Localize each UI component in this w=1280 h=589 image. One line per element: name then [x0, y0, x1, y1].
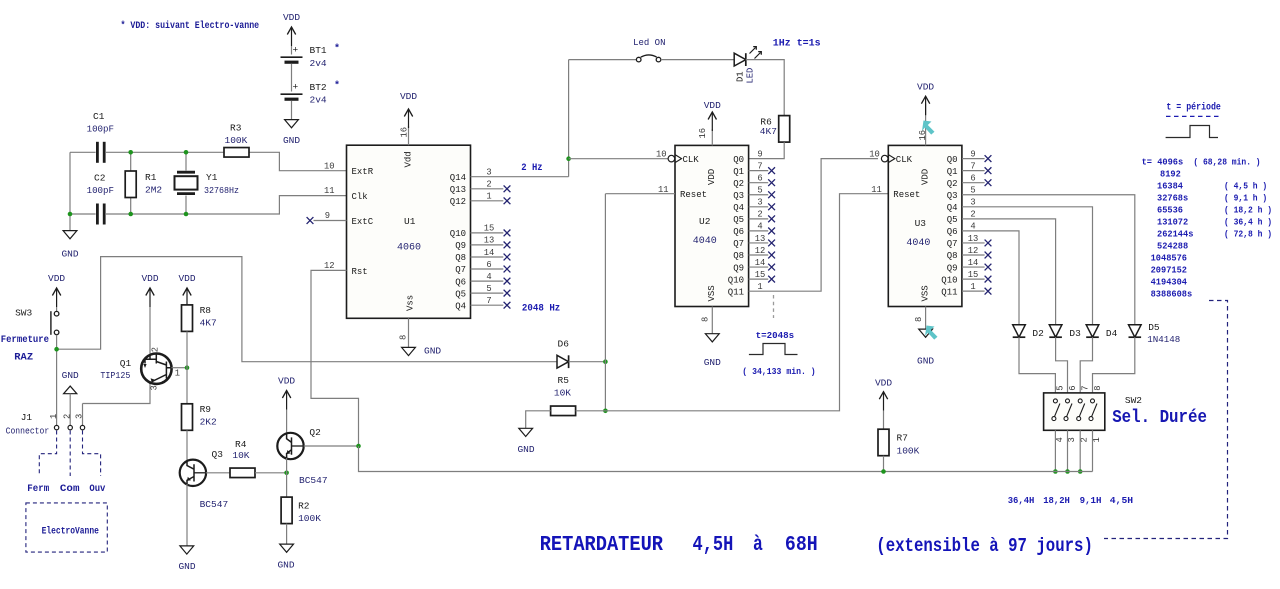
- svg-text:( 72,8 h ): ( 72,8 h ): [1224, 228, 1272, 239]
- svg-text:13: 13: [755, 234, 766, 244]
- svg-text:2: 2: [486, 180, 491, 190]
- svg-text:3: 3: [757, 198, 762, 208]
- ground (R5): [519, 428, 533, 436]
- svg-text:VDD: VDD: [278, 376, 295, 387]
- svg-text:2: 2: [970, 210, 975, 220]
- svg-text:100pF: 100pF: [87, 124, 115, 135]
- resistor R1 2M2: [130, 152, 132, 214]
- svg-text:2M2: 2M2: [145, 185, 162, 196]
- svg-text:6: 6: [1068, 385, 1078, 390]
- svg-text:3: 3: [970, 198, 975, 208]
- no-connect marker cyan (U3 bottom): [925, 326, 938, 340]
- svg-text:10: 10: [656, 149, 667, 159]
- wire U2 Reset vertical: [605, 194, 675, 411]
- svg-text:4: 4: [486, 272, 491, 282]
- svg-text:Q10: Q10: [450, 229, 466, 239]
- svg-text:10K: 10K: [232, 450, 249, 461]
- svg-text:68H: 68H: [785, 534, 818, 557]
- resistor R6 box: [779, 116, 790, 143]
- resistor R9 2K2: [182, 404, 193, 431]
- dashed underline: [1166, 115, 1222, 117]
- svg-text:U2: U2: [699, 216, 711, 227]
- svg-text:Q8: Q8: [947, 251, 958, 261]
- transistor Q1 TIP125: [141, 354, 171, 384]
- svg-text:4K7: 4K7: [760, 126, 777, 137]
- svg-text:Reset: Reset: [680, 190, 707, 200]
- svg-text:4040: 4040: [906, 238, 930, 249]
- wire R4 to Q2 emitter junction: [255, 472, 287, 474]
- svg-text:15: 15: [755, 270, 766, 280]
- svg-text:14: 14: [484, 248, 495, 258]
- svg-text:Vdd: Vdd: [404, 151, 414, 167]
- svg-text:Q9: Q9: [733, 263, 744, 273]
- svg-text:8: 8: [914, 317, 924, 322]
- crystal Y1 32768Hz: [185, 152, 187, 214]
- svg-text:Reset: Reset: [893, 190, 920, 200]
- wire R5 left to ground: [526, 411, 551, 429]
- svg-text:6: 6: [486, 260, 491, 270]
- wire R8 to R9: [186, 331, 188, 403]
- svg-text:VDD: VDD: [178, 273, 195, 284]
- svg-text:2: 2: [62, 414, 72, 419]
- svg-text:Q5: Q5: [455, 289, 466, 299]
- svg-text:7: 7: [757, 161, 762, 171]
- svg-text:ExtR: ExtR: [352, 167, 374, 177]
- diode D5: [1129, 325, 1142, 337]
- svg-text:R4: R4: [235, 439, 247, 450]
- svg-text:Q7: Q7: [947, 239, 958, 249]
- wire VDD to R8: [186, 305, 188, 307]
- SW2 pole 3: [1078, 399, 1082, 403]
- diode D1 triangle: [734, 53, 746, 66]
- svg-text:R8: R8: [200, 305, 212, 316]
- svg-text:4,5H: 4,5H: [1110, 495, 1134, 506]
- svg-text:9: 9: [325, 211, 330, 221]
- SW2 pin 2 bottom wire: [1067, 430, 1069, 471]
- wire VDD to Q1 emitter: [149, 307, 151, 354]
- svg-text:GND: GND: [517, 444, 534, 455]
- svg-text:10: 10: [869, 149, 880, 159]
- wire Q1 collector to J1 pin3: [83, 384, 151, 426]
- svg-text:4040: 4040: [693, 236, 717, 247]
- resistor R1 box: [125, 171, 136, 198]
- wire R6 to U2 Q0: [749, 142, 785, 159]
- svg-text:U3: U3: [915, 218, 927, 229]
- svg-text:GND: GND: [61, 249, 78, 260]
- svg-text:18,2H: 18,2H: [1043, 495, 1070, 506]
- resistor R8 4K7: [182, 305, 193, 332]
- svg-text:1: 1: [970, 282, 975, 292]
- svg-text:1N4148: 1N4148: [1147, 335, 1180, 345]
- wire RAZ net SW3 to D6 and resets: [57, 257, 557, 362]
- svg-text:Q1: Q1: [947, 167, 958, 177]
- waveform t=2048s: [749, 344, 798, 355]
- ground (R2): [280, 544, 294, 552]
- svg-text:GND: GND: [62, 370, 79, 381]
- svg-text:10K: 10K: [554, 388, 571, 399]
- wire R7 to common wire: [883, 456, 885, 472]
- wire U3 Q4 to D4: [962, 207, 1093, 325]
- op IC U3 4040 body: [888, 145, 962, 306]
- ground (Q3): [180, 546, 194, 554]
- svg-text:8192: 8192: [1160, 168, 1181, 179]
- svg-text:Sel. Durée: Sel. Durée: [1112, 408, 1207, 428]
- svg-text:t = période: t = période: [1166, 102, 1221, 113]
- svg-text:16384: 16384: [1157, 180, 1183, 191]
- ground (U3): [919, 329, 933, 337]
- svg-text:D5: D5: [1148, 322, 1160, 333]
- wire D5 to SW2 pin8: [1093, 337, 1135, 401]
- svg-text:( 34,133 min. ): ( 34,133 min. ): [742, 366, 815, 377]
- svg-text:Q6: Q6: [947, 227, 958, 237]
- ground (U1): [402, 347, 416, 355]
- wire left vertical to ground: [69, 152, 71, 230]
- svg-text:2K2: 2K2: [200, 417, 217, 428]
- svg-text:Q4: Q4: [455, 301, 466, 311]
- svg-text:1: 1: [175, 369, 180, 379]
- svg-text:VDD: VDD: [707, 169, 717, 185]
- svg-text:VDD: VDD: [283, 12, 300, 23]
- svg-text:Q9: Q9: [947, 263, 958, 273]
- wire Q2 base net to SW2 common: [359, 446, 1093, 472]
- svg-text:+: +: [293, 82, 299, 93]
- svg-text:R2: R2: [298, 501, 310, 512]
- svg-text:2: 2: [757, 210, 762, 220]
- svg-text:32768Hz: 32768Hz: [204, 185, 239, 196]
- wire 2Hz to U2 CLK: [569, 158, 669, 160]
- svg-text:Connector: Connector: [6, 426, 50, 437]
- svg-text:5: 5: [486, 284, 491, 294]
- power VDD (U1): [404, 109, 412, 117]
- svg-text:15: 15: [484, 224, 495, 234]
- diode D3: [1049, 325, 1062, 337]
- svg-text:R9: R9: [200, 404, 212, 415]
- svg-text:Q4: Q4: [947, 203, 958, 213]
- svg-text:D2: D2: [1032, 328, 1044, 339]
- svg-text:D3: D3: [1069, 328, 1081, 339]
- svg-text:VDD: VDD: [400, 91, 417, 102]
- resistor R3 box: [224, 148, 249, 158]
- svg-text:100K: 100K: [298, 513, 321, 524]
- svg-text:2v4: 2v4: [310, 58, 327, 69]
- svg-text:GND: GND: [917, 356, 934, 367]
- svg-text:5: 5: [970, 186, 975, 196]
- power VDD (R7): [879, 392, 887, 400]
- svg-text:Q7: Q7: [733, 239, 744, 249]
- no-connect marker cyan (U3 top): [922, 121, 935, 135]
- svg-text:3: 3: [486, 168, 491, 178]
- op IC U2 4040 body: [675, 145, 749, 306]
- svg-text:4: 4: [757, 222, 762, 232]
- wire BT2 to GND: [291, 101, 293, 120]
- svg-text:15: 15: [968, 270, 979, 280]
- svg-text:t=2048s: t=2048s: [756, 330, 795, 341]
- svg-text:D6: D6: [558, 339, 570, 350]
- U2 period dashed marker: [773, 295, 775, 318]
- svg-text:RAZ: RAZ: [14, 353, 33, 364]
- diode D4: [1086, 325, 1099, 337]
- svg-text:9,1H: 9,1H: [1080, 495, 1102, 506]
- svg-text:12: 12: [968, 246, 979, 256]
- power VDD (Q2): [282, 391, 290, 399]
- svg-text:Q6: Q6: [733, 227, 744, 237]
- svg-text:10: 10: [324, 161, 335, 171]
- svg-text:*: *: [334, 80, 340, 92]
- power VDD (U3): [921, 96, 929, 104]
- svg-text:Q4: Q4: [733, 203, 744, 213]
- wire VDD to Q2 collector: [286, 410, 288, 434]
- junction dots oscillator: [128, 150, 133, 155]
- svg-text:Q1: Q1: [733, 167, 744, 177]
- svg-text:Q13: Q13: [450, 185, 466, 195]
- svg-text:ElectroVanne: ElectroVanne: [42, 526, 99, 538]
- svg-text:131072: 131072: [1157, 216, 1189, 227]
- svg-text:6: 6: [970, 174, 975, 184]
- wire Q1 base to R8/R9 net: [171, 367, 187, 369]
- svg-text:Q2: Q2: [947, 179, 958, 189]
- svg-text:7: 7: [1081, 385, 1091, 390]
- svg-text:GND: GND: [704, 357, 721, 368]
- wire U1 Rst to Q2 base junction: [304, 270, 359, 446]
- ground arrow (J1 pin2): [64, 386, 77, 394]
- svg-text:1Hz t=1s: 1Hz t=1s: [773, 38, 821, 50]
- svg-text:7: 7: [486, 296, 491, 306]
- svg-text:SW2: SW2: [1125, 395, 1142, 406]
- svg-text:4194304: 4194304: [1151, 277, 1188, 288]
- svg-text:CLK: CLK: [896, 155, 913, 165]
- svg-text:8: 8: [701, 317, 711, 322]
- svg-text:Q5: Q5: [733, 215, 744, 225]
- svg-text:(extensible à 97 jours): (extensible à 97 jours): [876, 535, 1093, 557]
- svg-text:CLK: CLK: [683, 155, 700, 165]
- svg-text:16: 16: [698, 128, 708, 139]
- svg-text:BT2: BT2: [310, 82, 327, 93]
- svg-text:GND: GND: [424, 346, 441, 357]
- svg-text:Q2: Q2: [733, 179, 744, 189]
- wire GND to J1 pin2: [69, 394, 71, 426]
- SW2 pin 3 bottom wire: [1079, 430, 1081, 471]
- ground (U2): [705, 334, 719, 342]
- svg-text:2v4: 2v4: [310, 95, 327, 106]
- svg-text:5: 5: [1056, 385, 1066, 390]
- wire U3 Q6 to D2: [962, 231, 1019, 325]
- svg-text:( 9,1 h ): ( 9,1 h ): [1224, 192, 1267, 203]
- svg-text:Q1: Q1: [120, 358, 132, 369]
- power VDD (SW3): [52, 288, 60, 296]
- svg-text:R5: R5: [558, 375, 570, 386]
- U3 pin 10 CLK: [881, 155, 888, 162]
- svg-text:8: 8: [1093, 385, 1103, 390]
- svg-text:7: 7: [970, 161, 975, 171]
- J1 pin 1: [54, 425, 58, 429]
- svg-text:65536: 65536: [1157, 204, 1183, 215]
- svg-text:R3: R3: [230, 123, 242, 134]
- svg-text:Com: Com: [60, 484, 80, 495]
- svg-text:Q8: Q8: [733, 251, 744, 261]
- waveform periode: [1166, 126, 1218, 138]
- svg-text:BC547: BC547: [299, 475, 328, 486]
- transistor Q2 BC547: [277, 433, 303, 459]
- U2 pin 10 CLK: [668, 155, 675, 162]
- svg-text:Q5: Q5: [947, 215, 958, 225]
- J1 pin 3: [80, 425, 84, 429]
- svg-text:Rst: Rst: [352, 267, 368, 277]
- power VDD (Q1): [146, 288, 154, 296]
- svg-text:LED: LED: [746, 68, 756, 84]
- svg-text:11: 11: [871, 185, 882, 195]
- svg-text:Q0: Q0: [947, 155, 958, 165]
- svg-text:Y1: Y1: [206, 172, 218, 183]
- svg-text:U1: U1: [404, 216, 416, 227]
- svg-text:4: 4: [970, 222, 975, 232]
- svg-text:Q11: Q11: [728, 287, 744, 297]
- J1 pin 2: [68, 425, 72, 429]
- svg-text:Q3: Q3: [212, 449, 224, 460]
- ground (battery): [285, 120, 299, 128]
- svg-text:Q3: Q3: [733, 191, 744, 201]
- svg-text:100K: 100K: [225, 135, 248, 146]
- svg-text:à: à: [753, 534, 763, 557]
- power VDD (R8): [183, 288, 191, 296]
- svg-text:GND: GND: [283, 135, 300, 146]
- svg-text:9: 9: [970, 149, 975, 159]
- svg-text:11: 11: [324, 186, 335, 196]
- wire Q2 emitter down to junction: [286, 458, 288, 497]
- wire D6 cathode to junction: [569, 361, 606, 363]
- wire Q3 emitter to ground: [186, 484, 188, 546]
- svg-text:( 68,28 min. ): ( 68,28 min. ): [1193, 156, 1260, 167]
- svg-text:100K: 100K: [897, 446, 920, 457]
- power VDD (U2): [708, 112, 716, 120]
- wire D2 to SW2 pin5: [1019, 337, 1055, 401]
- svg-text:3: 3: [150, 385, 160, 390]
- svg-text:4060: 4060: [397, 243, 421, 254]
- svg-text:R1: R1: [145, 172, 157, 183]
- svg-text:1048576: 1048576: [1151, 253, 1188, 264]
- svg-text:Q9: Q9: [455, 241, 466, 251]
- svg-text:D1: D1: [736, 71, 746, 82]
- ground (oscillator): [63, 231, 77, 239]
- wire D4 to SW2 pin7: [1080, 337, 1092, 401]
- dashed leads to ElectroVanne: [39, 431, 100, 477]
- diode D2: [1013, 325, 1026, 337]
- svg-text:Ouv: Ouv: [89, 484, 105, 495]
- dashed extension border: [1104, 301, 1228, 539]
- wire oscillator bottom rail: [70, 196, 347, 214]
- wire U2 Q11 to U3 CLK: [749, 159, 878, 292]
- svg-text:ExtC: ExtC: [352, 217, 374, 227]
- svg-text:Fermeture: Fermeture: [1, 335, 49, 346]
- svg-text:12: 12: [755, 246, 766, 256]
- svg-text:+: +: [293, 45, 299, 56]
- svg-text:t= 4096s: t= 4096s: [1142, 156, 1184, 167]
- svg-text:Clk: Clk: [352, 192, 368, 202]
- op IC U1 4060 body: [347, 145, 471, 318]
- svg-text:8: 8: [399, 335, 409, 340]
- svg-text:C2: C2: [94, 173, 106, 184]
- svg-text:J1: J1: [21, 412, 33, 423]
- wire U3 Q3 to D5: [962, 195, 1135, 325]
- svg-text:Q10: Q10: [941, 275, 957, 285]
- svg-text:4: 4: [1055, 437, 1065, 442]
- diode D6 triangle: [557, 355, 569, 368]
- svg-text:Ferm: Ferm: [27, 484, 49, 495]
- svg-text:36,4H: 36,4H: [1008, 495, 1035, 506]
- svg-text:6: 6: [757, 174, 762, 184]
- wire U3 Q5 to D3: [962, 219, 1056, 325]
- SW2 pole 1: [1053, 399, 1057, 403]
- wire R9 to Q3 collector: [186, 430, 188, 461]
- wire Q14 2Hz net to top loop: [471, 60, 569, 177]
- svg-text:VDD: VDD: [704, 100, 721, 111]
- svg-text:Q7: Q7: [455, 265, 466, 275]
- battery BT2: [281, 93, 303, 95]
- svg-text:14: 14: [968, 258, 979, 268]
- svg-text:Q6: Q6: [455, 277, 466, 287]
- svg-text:VDD: VDD: [141, 273, 158, 284]
- svg-text:GND: GND: [277, 560, 294, 571]
- svg-text:VSS: VSS: [920, 285, 930, 301]
- svg-text:( 4,5 h ): ( 4,5 h ): [1224, 180, 1267, 191]
- wire LED to R6: [746, 60, 784, 116]
- capacitor C1 plates: [96, 142, 99, 163]
- wire top loop to Led ON switch: [569, 59, 637, 61]
- svg-text:BT1: BT1: [310, 45, 327, 56]
- svg-text:( 18,2 h ): ( 18,2 h ): [1224, 204, 1272, 215]
- svg-text:Q10: Q10: [728, 275, 744, 285]
- svg-text:C1: C1: [93, 111, 105, 122]
- wire R2 to ground: [286, 524, 288, 545]
- svg-text:BC547: BC547: [200, 499, 229, 510]
- svg-text:Q11: Q11: [941, 287, 957, 297]
- wire BT1 to BT2: [291, 64, 293, 92]
- svg-text:RETARDATEUR: RETARDATEUR: [540, 534, 664, 557]
- resistor R2 box: [281, 497, 292, 523]
- svg-text:1: 1: [486, 192, 491, 202]
- svg-text:2097152: 2097152: [1151, 265, 1188, 276]
- SW2 pole 4: [1091, 399, 1095, 403]
- svg-text:13: 13: [968, 234, 979, 244]
- svg-text:32768s: 32768s: [1157, 192, 1189, 203]
- SW2 pin 1 bottom wire: [1054, 430, 1056, 471]
- svg-text:2: 2: [1080, 437, 1090, 442]
- svg-text:SW3: SW3: [15, 308, 32, 319]
- svg-text:Led ON: Led ON: [633, 37, 665, 48]
- wire R5 right to junction: [576, 410, 606, 412]
- svg-text:9: 9: [757, 149, 762, 159]
- switch SW3: [54, 311, 59, 316]
- svg-text:100pF: 100pF: [87, 185, 115, 196]
- svg-text:2048 Hz: 2048 Hz: [522, 303, 560, 315]
- wire D3 to SW2 pin6: [1056, 337, 1068, 401]
- resistor R7 box: [878, 429, 889, 456]
- svg-text:16: 16: [918, 130, 928, 141]
- svg-text:2 Hz: 2 Hz: [521, 162, 542, 174]
- power flag VDD (battery): [287, 27, 295, 35]
- svg-text:R7: R7: [897, 433, 908, 444]
- svg-text:D4: D4: [1106, 328, 1118, 339]
- svg-text:Q12: Q12: [450, 197, 466, 207]
- svg-text:2: 2: [151, 347, 161, 352]
- switch Led ON: [636, 57, 641, 62]
- svg-text:Vss: Vss: [406, 295, 416, 311]
- svg-text:4K7: 4K7: [200, 318, 217, 329]
- svg-text:5: 5: [757, 186, 762, 196]
- capacitor C2 plates: [96, 204, 99, 225]
- svg-text:1: 1: [757, 282, 762, 292]
- svg-text:3: 3: [75, 414, 85, 419]
- svg-text:13: 13: [484, 236, 495, 246]
